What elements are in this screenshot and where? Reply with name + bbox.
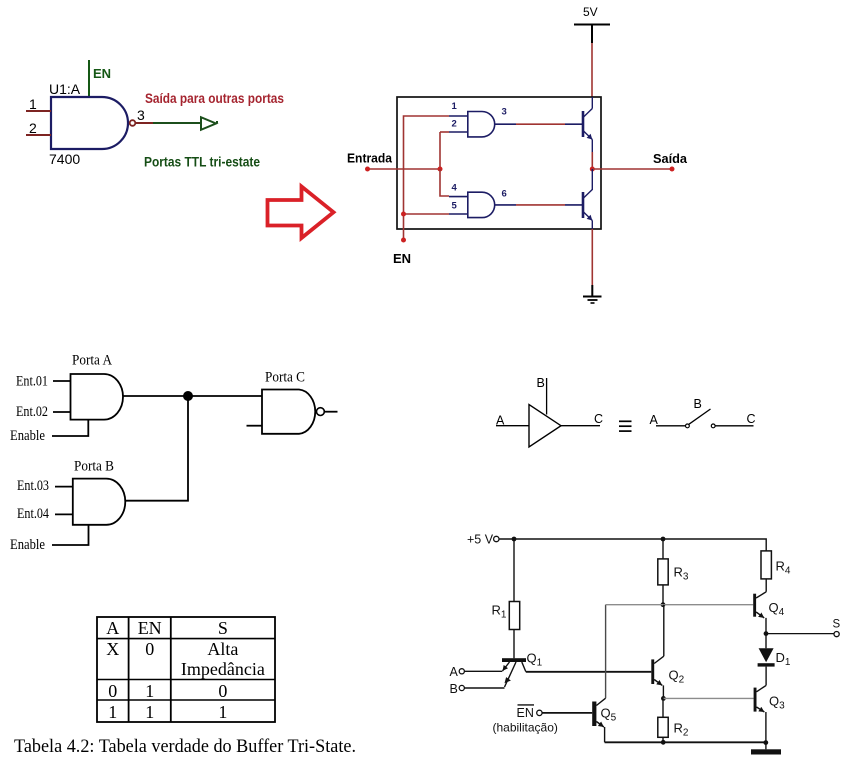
wire pin1 loop (red) left vertical [404,116,450,214]
wire R3 bottom to node [662,585,664,605]
diode D1 cathode bar [758,663,775,666]
node junction dot Entrada [438,167,443,172]
svg-text:0: 0 [145,639,154,659]
node rail dot R1 [512,537,517,542]
wire Ent.01 [53,380,71,382]
svg-text:Ent.04: Ent.04 [17,506,49,522]
svg-text:Enable: Enable [10,537,45,553]
svg-text:Impedância: Impedância [181,659,265,679]
node junction dot pin5/EN [401,212,406,217]
wire Q3 base (gray) [663,697,753,699]
wire bottom rail [605,741,766,743]
transistor Q4 base bar [753,594,756,617]
svg-text:S: S [218,618,228,638]
wire emitter Q-top to output node (red) [591,152,593,169]
wire S node to D1 [765,634,767,649]
svg-text:EN: EN [93,66,111,81]
collector of Q3 [757,685,767,691]
svg-text:Ent.01: Ent.01 [16,374,48,390]
pin 4 stub [449,196,468,198]
svg-text:Portas TTL tri-estate: Portas TTL tri-estate [144,155,260,170]
wire Saída (red) [592,168,672,170]
gate U1:A 7400 NAND body [51,97,128,149]
wire node to R2 [662,698,664,717]
svg-text:X: X [106,639,119,659]
label EN with overline [518,704,535,706]
pin 3 wire (maroon) [136,122,153,124]
wire to output port (green) [153,122,201,124]
collector of Q1 [522,662,526,672]
node rail dot R2 [661,740,666,745]
svg-text:3: 3 [137,107,145,123]
table row line 3 [97,699,275,701]
node Saída terminal dot [670,167,675,172]
wire EN to Q5 base [542,712,592,714]
wire Entrada horizontal (red) [368,168,441,170]
wire R3 top [662,541,664,559]
wire +5V rail [499,539,766,551]
AND gate B (pins 4,5,6) [468,192,495,217]
collector of Q4 [756,592,766,598]
equivalence sign [619,421,632,431]
IC boundary box [397,97,601,229]
emitter 2 of Q1 (to B) [505,662,517,687]
svg-text:EN: EN [517,706,534,720]
svg-text:1: 1 [452,101,458,112]
node Entrada terminal dot [365,167,370,172]
node rail dot R3 [661,537,666,542]
wire switch right [715,425,753,427]
pin 3 stub [495,123,516,125]
wire Porta C output [324,411,337,413]
wire pin2 branch (red) [439,132,441,169]
wire D1 to Q3 collector [765,667,767,686]
wire B to emitter2 [465,687,505,689]
svg-text:1: 1 [108,702,117,722]
transistor Q-bottom (npn) [583,190,592,230]
ground bar [751,749,781,754]
svg-text:Entrada: Entrada [347,152,393,166]
svg-text:Saída para outras portas: Saída para outras portas [145,91,284,106]
wire EN stub below box [403,214,405,240]
wire Q1 collector to Q2 base [526,671,652,673]
output port arrow [201,117,218,130]
gate Porta A (AND) [71,374,123,420]
svg-text:4: 4 [452,183,458,194]
gate Porta B (AND) [73,479,125,525]
svg-text:0: 0 [108,681,117,701]
output inversion bubble [130,120,136,126]
wire R1 to Q1 base [513,630,515,659]
emitter of Q3 [757,707,765,712]
terminal EN circle [537,710,542,715]
svg-text:7400: 7400 [49,151,80,167]
wire pin4 branch (red) [440,169,449,196]
wire Enable A [52,420,88,436]
node rail dot ground [763,740,768,745]
svg-text:1: 1 [218,702,227,722]
wire R4 bottom to Q4 collector [765,579,767,592]
wire junction down to Porta B output [126,396,189,501]
wire pin6 to Q-bottom base (red) [516,204,565,206]
wire S output [766,633,834,635]
svg-text:B: B [450,682,458,696]
switch throw contact [711,424,715,428]
wire Q3 emitter to rail [765,712,767,742]
svg-text:B: B [694,397,702,411]
buffer triangle [529,405,561,448]
pin 5 stub [449,213,468,215]
wire Q4 base (gray) [606,604,754,606]
collector of Q2 [654,656,664,663]
node junction dot [183,391,193,401]
wire node down to Q2 collector [663,605,665,657]
wire A to emitter1 [465,670,503,672]
wire Porta C input 2 stub [247,425,263,427]
wire C output [561,425,600,427]
wire node to collector Q-bottom (navy) [591,169,593,190]
transistor Q3 base bar [754,688,757,712]
bubble Porta C [317,408,325,416]
wire Ent.02 [53,411,71,413]
diode D1 triangle [759,648,774,662]
terminal A circle [459,669,464,674]
emitter 1 of Q1 (to A) [503,662,510,671]
wire base stub Q-top (navy) [565,123,582,125]
emitter of Q4 [756,612,764,618]
table column line 1 [128,617,130,722]
svg-text:Saída: Saída [653,152,688,166]
svg-text:Porta B: Porta B [74,459,114,475]
wire pin5 from left vertical (red) [404,213,450,215]
table row line 1 [97,638,275,640]
wire R2 bottom [662,737,664,742]
resistor R3 [658,559,668,585]
wire base stub Q-bottom (navy) [565,204,582,206]
gate Porta C (NAND) [262,390,315,434]
node dot below R3 [661,602,666,607]
wire Porta A output to Porta C [123,395,262,397]
wire Ent.03 [55,486,73,488]
switch pole contact [686,424,690,428]
svg-text:EN: EN [138,618,162,638]
svg-text:1: 1 [29,96,37,112]
svg-text:U1:A: U1:A [49,81,81,97]
wire to ground [765,742,767,749]
resistor R2 [658,717,668,737]
wire B vertical [546,378,548,415]
svg-text:6: 6 [502,189,507,200]
wire enable vertical (Q5 collector up) [605,605,607,699]
wire emitter Q-bottom to ground (red) [591,229,593,285]
wire pin3 to Q-top base (red) [516,123,565,125]
svg-text:Porta C: Porta C [265,370,305,386]
resistor R4 [761,551,771,579]
svg-text:1: 1 [145,681,154,701]
emitter of Q2 [654,680,662,686]
svg-text:2: 2 [29,120,37,136]
svg-text:Porta A: Porta A [72,353,112,369]
svg-text:EN: EN [393,251,411,266]
svg-text:5: 5 [452,201,458,212]
transistor Q1 (multi-emitter) base bar [502,658,526,662]
svg-text:A: A [106,618,119,638]
pin 1 wire [26,110,51,112]
svg-text:S: S [833,619,841,631]
svg-text:0: 0 [218,681,227,701]
table row line 2 [97,679,275,681]
big red block arrow [268,187,334,239]
svg-text:Alta: Alta [207,639,238,659]
ground symbol [583,285,602,303]
svg-text:A: A [650,413,659,427]
svg-text:(habilitação): (habilitação) [493,721,558,735]
pin 2 wire [26,134,51,136]
wire EN (green vertical into gate top) [88,60,90,97]
pin 1 stub [449,115,468,117]
power 5V rail symbol [574,24,610,26]
svg-text:Ent.03: Ent.03 [17,478,49,494]
truth table frame [97,617,275,722]
svg-text:3: 3 [502,107,507,118]
table column line 2 [170,617,172,722]
svg-text:B: B [537,376,545,390]
wire rail to R1 [513,539,515,602]
node output junction dot [590,167,595,172]
svg-text:Enable: Enable [10,428,45,444]
wire Q4 emitter to S node [765,618,767,634]
transistor Q-top (npn) [583,97,592,152]
svg-text:+5 V: +5 V [467,533,494,547]
wire 5V to collector Q-top (red) [591,43,593,97]
wire Ent.04 [55,513,73,515]
terminal S circle [834,632,839,637]
AND gate A (pins 1,2,3) [468,112,495,137]
transistor Q5 base bar [592,702,596,727]
switch lever [689,409,711,424]
terminal B circle [459,685,464,690]
svg-text:C: C [594,412,603,426]
wire Q5 emitter to bottom rail [604,727,606,742]
svg-text:A: A [450,665,459,679]
resistor R1 [509,602,519,630]
terminal +5V circle [494,536,499,541]
svg-text:Ent.02: Ent.02 [16,404,48,420]
collector of Q5 [596,698,605,705]
svg-text:C: C [747,412,756,426]
svg-text:5V: 5V [583,5,598,19]
wire A input [496,425,529,427]
emitter of Q5 [596,722,604,728]
svg-text:Tabela 4.2: Tabela verdade do: Tabela 4.2: Tabela verdade do Buffer Tri… [14,737,356,757]
node S dot [764,631,769,636]
svg-text:2: 2 [452,119,457,130]
pin 6 stub [495,204,516,206]
svg-text:1: 1 [145,702,154,722]
pin 2 stub [449,131,468,133]
node EN terminal dot [401,238,406,243]
wire Q2 emitter down [662,685,664,698]
wire Enable B [52,525,89,545]
node dot Q2 emitter / R2 [661,696,666,701]
transistor Q2 base bar [651,659,654,684]
wire switch left [656,425,685,427]
